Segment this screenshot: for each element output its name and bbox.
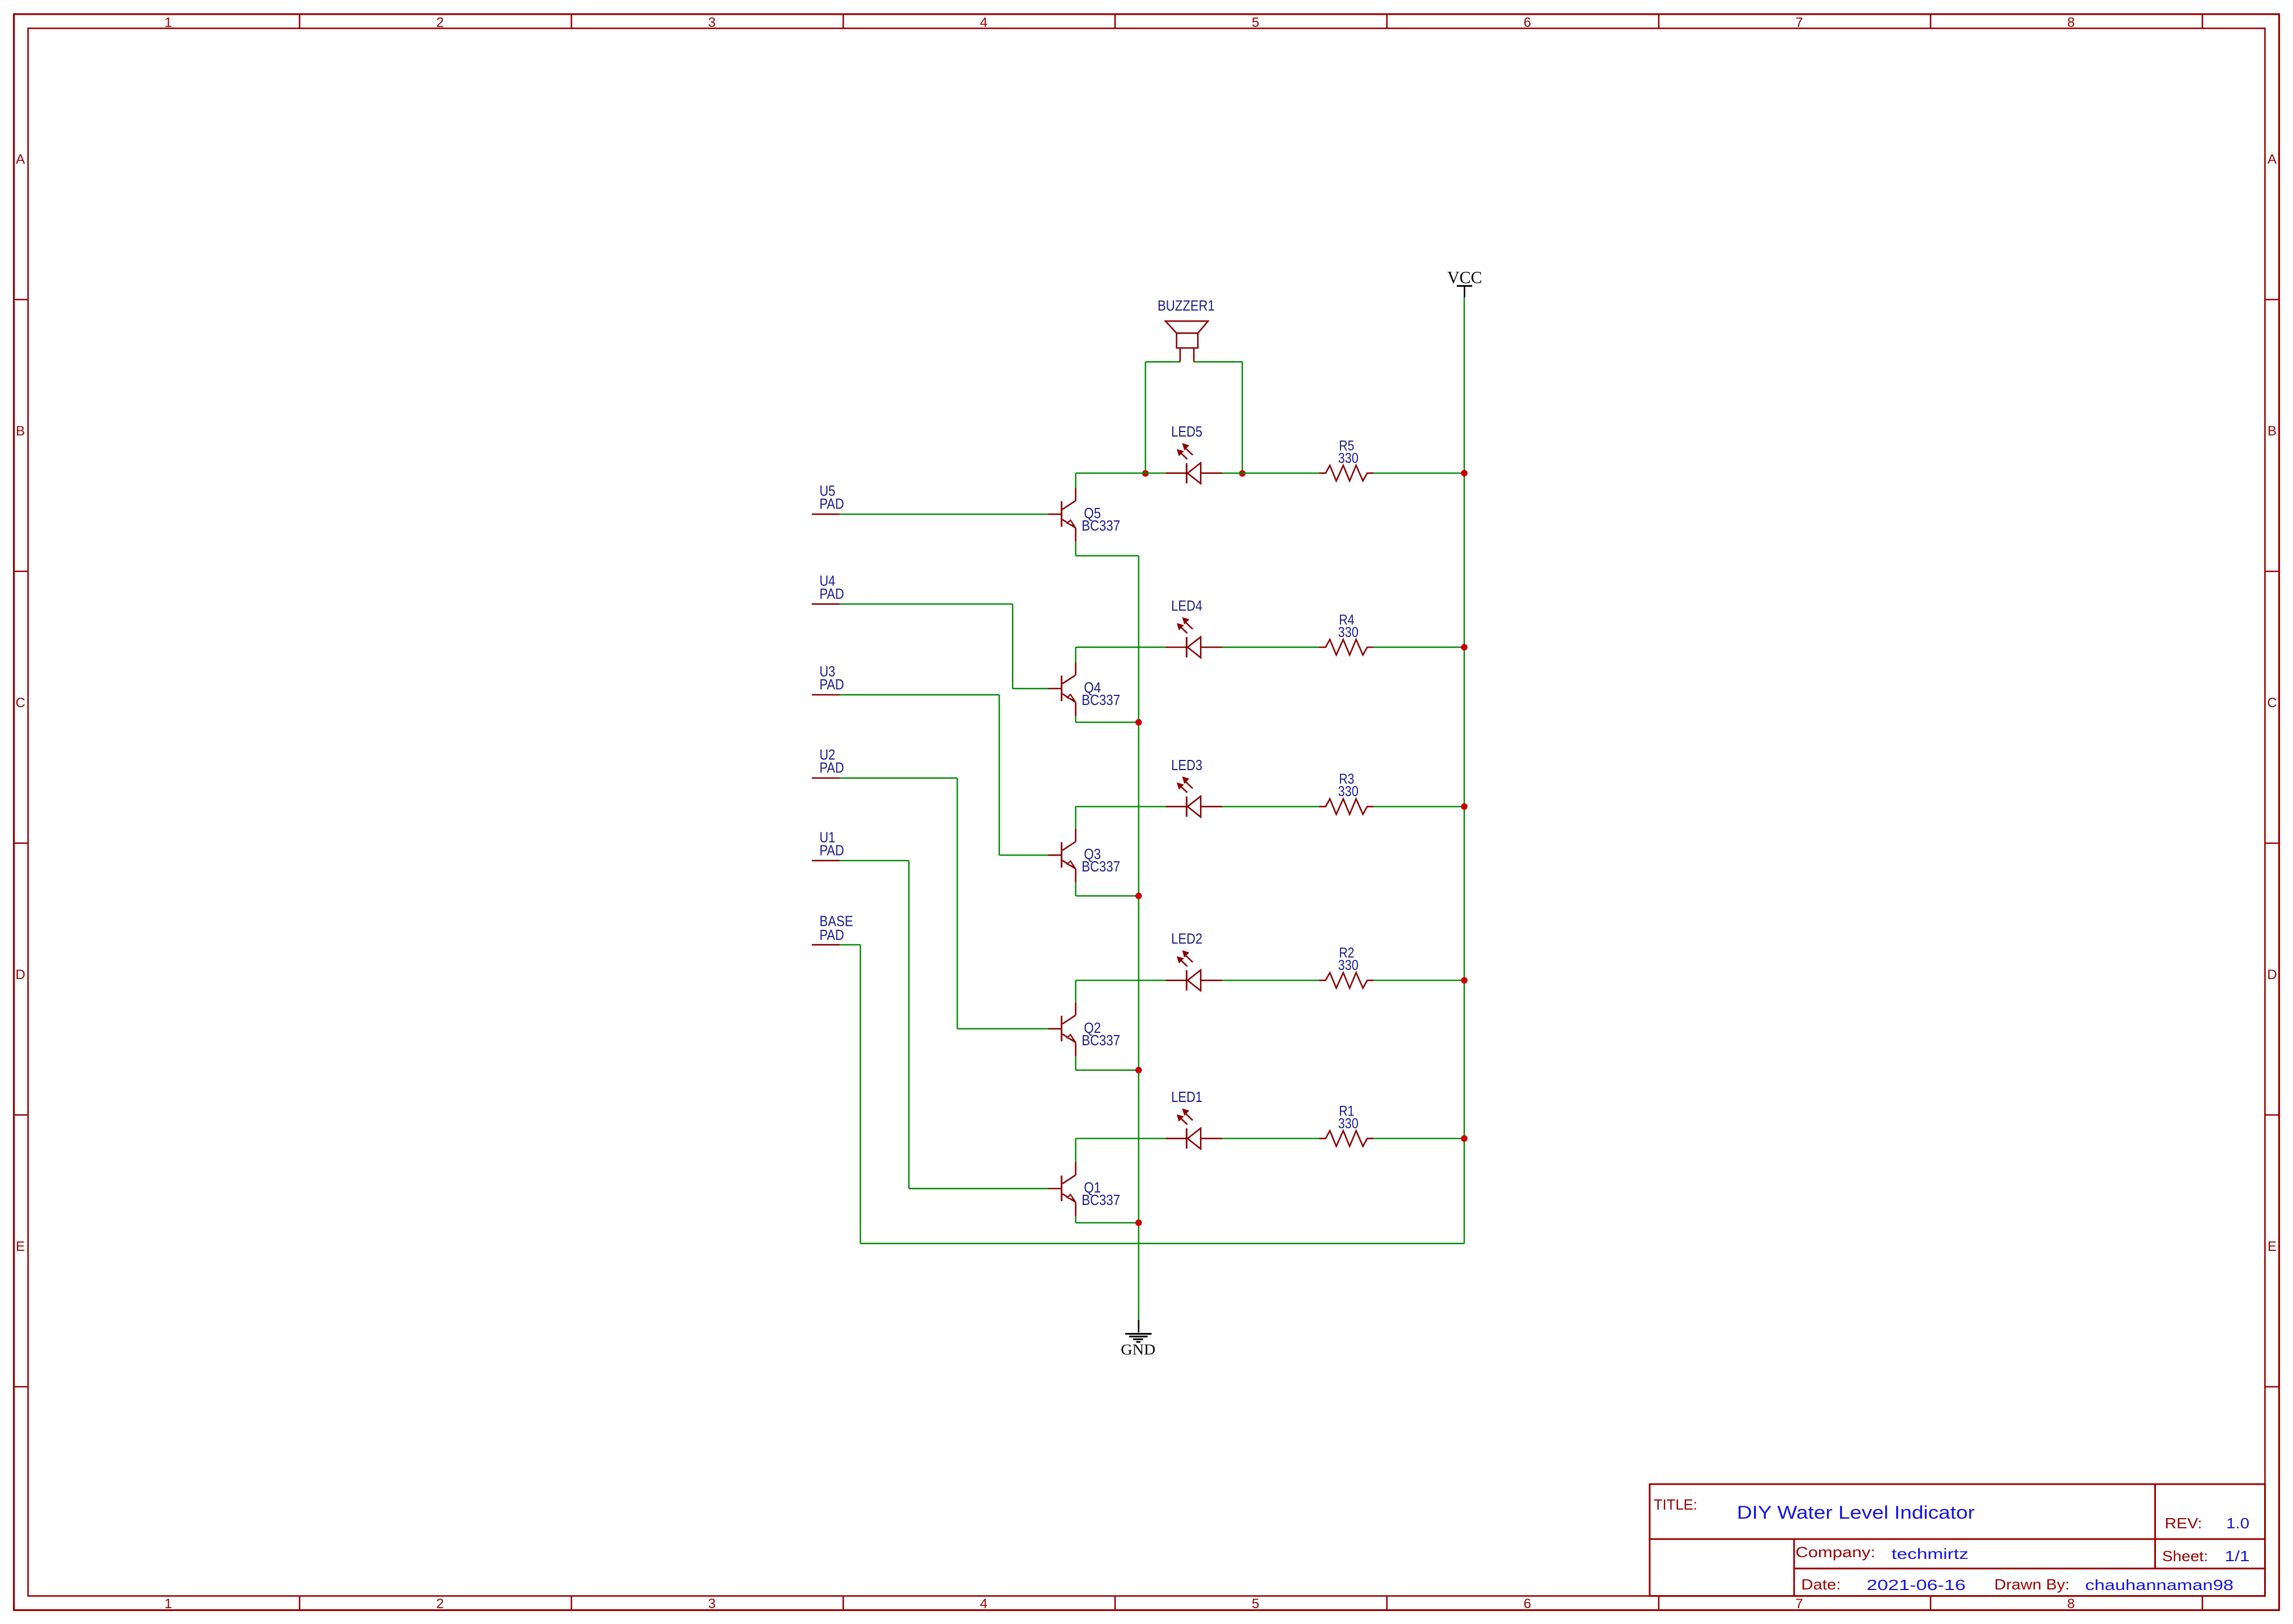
- svg-text:1/1: 1/1: [2225, 1548, 2250, 1565]
- label U4 PAD: [819, 572, 844, 602]
- transistor Q3 BC337: [1048, 829, 1075, 883]
- junction Q4 emitter / ground bus: [1135, 719, 1142, 726]
- label Q4 value BC337: [1082, 691, 1120, 708]
- svg-text:C: C: [2267, 695, 2277, 711]
- label Q5 value BC337: [1082, 517, 1120, 534]
- label U3 PAD: [819, 663, 844, 693]
- svg-text:PAD: PAD: [819, 676, 844, 693]
- junction buzzer-right on LED5 row: [1239, 470, 1246, 477]
- wire Q5 emitter to ground bus: [1075, 542, 1138, 556]
- title block Date label: [1801, 1576, 1841, 1593]
- label Q2: [1084, 1019, 1101, 1036]
- title block REV label: [2165, 1515, 2202, 1532]
- junction R2 / VCC rail: [1461, 977, 1468, 984]
- label LED5: [1171, 423, 1202, 440]
- transistor Q2 BC337: [1048, 1002, 1075, 1056]
- pad BASE: [812, 944, 840, 946]
- svg-text:BC337: BC337: [1082, 1032, 1120, 1049]
- svg-text:E: E: [2268, 1239, 2277, 1254]
- wire Q3 emitter to ground bus: [1075, 883, 1138, 896]
- svg-text:PAD: PAD: [819, 841, 844, 858]
- svg-text:TITLE:: TITLE:: [1654, 1496, 1697, 1513]
- label R2: [1339, 945, 1354, 961]
- svg-text:6: 6: [1523, 1596, 1531, 1612]
- pad U2: [812, 777, 840, 779]
- svg-text:B: B: [2268, 424, 2277, 439]
- label LED1: [1171, 1088, 1202, 1105]
- resistor R4 330: [1320, 639, 1374, 655]
- frame column numbers bottom: [164, 1596, 2074, 1612]
- junction R5 / VCC rail: [1461, 470, 1468, 477]
- svg-text:PAD: PAD: [819, 926, 844, 943]
- wire LED2/R2 row: [1075, 980, 1464, 1002]
- svg-text:E: E: [16, 1239, 25, 1254]
- svg-text:Sheet:: Sheet:: [2162, 1548, 2208, 1565]
- label LED4: [1171, 597, 1202, 614]
- svg-text:3: 3: [708, 1596, 715, 1612]
- wire Q2 emitter to ground bus: [1075, 1056, 1138, 1070]
- svg-text:techmirtz: techmirtz: [1891, 1545, 1969, 1562]
- wire Q1 emitter to ground bus: [1075, 1216, 1138, 1223]
- wire buzzer left branch: [1146, 362, 1180, 473]
- svg-text:2: 2: [436, 15, 443, 31]
- svg-text:330: 330: [1338, 450, 1359, 466]
- frame row letters right: [2267, 152, 2277, 1254]
- LED LED5: [1166, 443, 1223, 484]
- wire U2 to transistor base: [840, 778, 1049, 1029]
- label U2 PAD: [819, 746, 844, 776]
- LED LED4: [1166, 618, 1223, 658]
- svg-text:Company:: Company:: [1796, 1544, 1876, 1561]
- label R2 value 330: [1338, 958, 1359, 973]
- svg-text:BUZZER1: BUZZER1: [1158, 297, 1215, 314]
- wire U3 to transistor base: [840, 695, 1049, 855]
- title block Drawn By label: [1995, 1576, 2070, 1593]
- svg-text:7: 7: [1795, 1596, 1803, 1612]
- label Q1 value BC337: [1082, 1191, 1120, 1208]
- wire LED1/R1 row: [1075, 1139, 1464, 1163]
- svg-text:330: 330: [1338, 958, 1359, 973]
- svg-text:BC337: BC337: [1082, 1191, 1120, 1208]
- title block REV value 1.0: [2226, 1515, 2249, 1532]
- wire buzzer right branch: [1194, 362, 1242, 473]
- svg-text:1: 1: [164, 15, 172, 31]
- junction R1 / VCC rail: [1461, 1135, 1468, 1142]
- svg-text:1: 1: [164, 1596, 172, 1612]
- label R1: [1339, 1103, 1354, 1119]
- wire GND rail vertical (emitter bus): [1138, 555, 1139, 1320]
- transistor Q4 BC337: [1048, 663, 1075, 716]
- svg-text:REV:: REV:: [2165, 1515, 2202, 1532]
- svg-text:PAD: PAD: [819, 759, 844, 776]
- svg-text:chauhannaman98: chauhannaman98: [2085, 1576, 2234, 1593]
- label LED2: [1171, 930, 1202, 947]
- svg-text:A: A: [16, 152, 25, 167]
- svg-text:LED1: LED1: [1171, 1088, 1202, 1105]
- junction Q2 emitter / ground bus: [1135, 1067, 1142, 1074]
- junction buzzer-left on LED5 row: [1142, 470, 1149, 477]
- svg-text:PAD: PAD: [819, 585, 844, 602]
- frame column numbers top: [164, 15, 2074, 31]
- svg-text:1.0: 1.0: [2226, 1515, 2249, 1532]
- label R3: [1339, 771, 1354, 787]
- pad U3: [812, 694, 840, 696]
- label BASE PAD: [819, 913, 853, 943]
- svg-text:LED5: LED5: [1171, 423, 1202, 440]
- svg-text:D: D: [15, 967, 25, 982]
- wire BASE pad to VCC rail (bottom rail): [840, 945, 1464, 1243]
- title block title value: DIY Water Level Indicator: [1737, 1502, 1975, 1523]
- wire U4 to transistor base: [840, 604, 1049, 689]
- label Q3 value BC337: [1082, 858, 1120, 875]
- label Q2 value BC337: [1082, 1032, 1120, 1049]
- title block border: [1650, 1484, 2265, 1596]
- frame row letters left: [15, 152, 25, 1254]
- svg-text:5: 5: [1252, 15, 1259, 31]
- svg-text:DIY Water Level Indicator: DIY Water Level Indicator: [1737, 1502, 1975, 1523]
- label Q5: [1084, 505, 1101, 522]
- resistor R5 330: [1320, 465, 1374, 481]
- svg-text:5: 5: [1252, 1596, 1259, 1612]
- svg-text:4: 4: [980, 15, 987, 31]
- svg-text:BC337: BC337: [1082, 858, 1120, 875]
- svg-text:LED3: LED3: [1171, 757, 1202, 773]
- pad U1: [812, 860, 840, 862]
- resistor R1 330: [1320, 1131, 1374, 1146]
- title block drawn-by value chauhannaman98: [2085, 1576, 2234, 1593]
- power flag VCC: [1447, 267, 1482, 297]
- label R1 value 330: [1338, 1116, 1359, 1131]
- svg-text:B: B: [16, 424, 25, 439]
- svg-text:8: 8: [2067, 15, 2074, 31]
- svg-text:VCC: VCC: [1447, 267, 1482, 287]
- wire U1 to transistor base: [840, 861, 1049, 1189]
- svg-text:8: 8: [2067, 1596, 2074, 1612]
- title block Sheet label: [2162, 1548, 2208, 1565]
- junction Q1 emitter / ground bus: [1135, 1220, 1142, 1226]
- svg-text:6: 6: [1523, 15, 1531, 31]
- resistor R3 330: [1320, 799, 1374, 814]
- label U1 PAD: [819, 828, 844, 858]
- buzzer BUZZER1: [1165, 321, 1208, 362]
- transistor Q5 BC337: [1048, 488, 1075, 542]
- label R5: [1339, 438, 1354, 454]
- label R3 value 330: [1338, 784, 1359, 800]
- svg-text:BC337: BC337: [1082, 691, 1120, 708]
- svg-text:LED2: LED2: [1171, 930, 1202, 947]
- junction R3 / VCC rail: [1461, 804, 1468, 810]
- label BUZZER1: [1158, 297, 1215, 314]
- svg-text:2: 2: [436, 1596, 443, 1612]
- svg-text:A: A: [2268, 152, 2277, 167]
- label LED3: [1171, 757, 1202, 773]
- LED LED2: [1166, 951, 1223, 991]
- title block TITLE label: [1654, 1496, 1697, 1513]
- wire VCC rail vertical: [1463, 297, 1464, 1243]
- label R5 value 330: [1338, 450, 1359, 466]
- svg-text:330: 330: [1338, 784, 1359, 800]
- title block sheet value 1/1: [2225, 1548, 2250, 1565]
- title block Company label: [1796, 1544, 1876, 1561]
- transistor Q1 BC337: [1048, 1163, 1075, 1216]
- svg-text:C: C: [15, 695, 25, 711]
- svg-text:330: 330: [1338, 625, 1359, 640]
- label R4: [1339, 612, 1354, 628]
- svg-text:GND: GND: [1121, 1341, 1155, 1358]
- svg-text:330: 330: [1338, 1116, 1359, 1131]
- label R4 value 330: [1338, 625, 1359, 640]
- wire LED3/R3 row: [1075, 806, 1464, 828]
- LED LED3: [1166, 777, 1223, 817]
- title block date value 2021-06-16: [1867, 1576, 1966, 1593]
- ground symbol GND: [1121, 1320, 1155, 1358]
- svg-text:BC337: BC337: [1082, 517, 1120, 534]
- label Q1: [1084, 1179, 1101, 1196]
- wire LED5/R5 row: [1075, 473, 1464, 488]
- svg-text:7: 7: [1795, 15, 1803, 31]
- label Q3: [1084, 845, 1101, 862]
- label Q4: [1084, 679, 1101, 696]
- wire U5 to transistor base: [840, 514, 1049, 515]
- svg-text:Drawn By:: Drawn By:: [1995, 1576, 2070, 1593]
- svg-text:Date:: Date:: [1801, 1576, 1841, 1593]
- svg-text:D: D: [2267, 967, 2277, 982]
- title block company value techmirtz: [1891, 1545, 1969, 1562]
- label U5 PAD: [819, 482, 844, 512]
- pad U5: [812, 514, 840, 515]
- LED LED1: [1166, 1109, 1223, 1149]
- svg-text:4: 4: [980, 1596, 987, 1612]
- resistor R2 330: [1320, 973, 1374, 988]
- svg-text:LED4: LED4: [1171, 597, 1202, 614]
- svg-text:PAD: PAD: [819, 495, 844, 512]
- pad U4: [812, 603, 840, 605]
- frame row tick marks: [14, 300, 2279, 1387]
- junction R4 / VCC rail: [1461, 644, 1468, 651]
- svg-text:3: 3: [708, 15, 715, 31]
- svg-text:2021-06-16: 2021-06-16: [1867, 1576, 1966, 1593]
- wire LED4/R4 row: [1075, 647, 1464, 663]
- junction Q3 emitter / ground bus: [1135, 892, 1142, 899]
- wire Q4 emitter to ground bus: [1075, 716, 1138, 723]
